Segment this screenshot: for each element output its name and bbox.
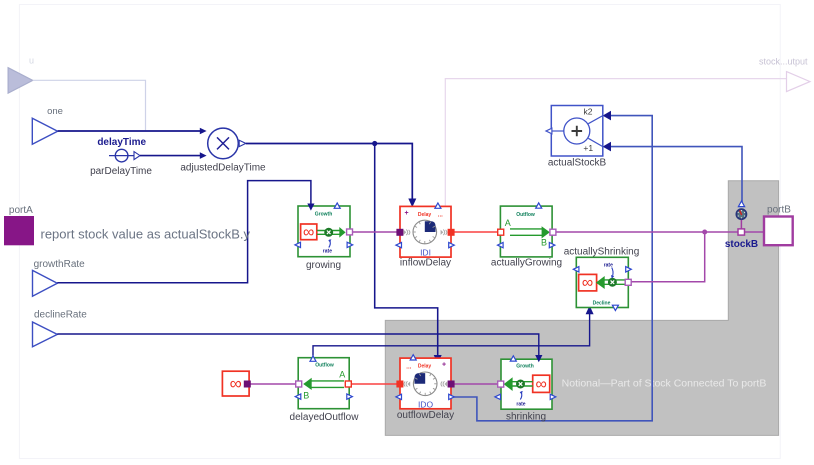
actuallyShrinking right port bbox=[625, 279, 631, 285]
wire: delayedOutflow to actuallyShrinking bbox=[313, 314, 590, 356]
stock stockB bbox=[725, 201, 758, 250]
actuallyShrinking bottom-right connector bbox=[612, 305, 618, 310]
svg-text:Delay: Delay bbox=[418, 363, 432, 369]
actuallyGrowing bottom-right connector bbox=[549, 242, 555, 247]
svg-text:Decline: Decline bbox=[593, 301, 611, 307]
shrinking input arrow bbox=[535, 355, 542, 362]
svg-text:shrinking: shrinking bbox=[506, 412, 546, 423]
svg-text:Notional—Part of Stock Connect: Notional—Part of Stock Connected To port… bbox=[562, 378, 767, 390]
growing cloud source bbox=[301, 224, 317, 240]
inflowDelay right port bbox=[448, 229, 454, 235]
port portB bbox=[764, 217, 793, 246]
svg-text:rate: rate bbox=[516, 402, 525, 408]
outflowDelay right port bbox=[448, 381, 454, 387]
stockB gauge icon bbox=[736, 209, 746, 219]
actuallyShrinking right-top connector bbox=[626, 267, 632, 272]
actualStockB output connector bbox=[546, 128, 552, 134]
growing rate pointer bbox=[329, 240, 330, 248]
delayedOutflow bottom-left connector bbox=[295, 394, 301, 399]
inflowDelay bottom-right connector bbox=[449, 242, 455, 247]
inflowDelay bottom-left connector bbox=[396, 242, 402, 247]
growing right info connector bbox=[347, 242, 353, 247]
delayedOutflow top connector bbox=[310, 356, 316, 361]
wire: adjustedDelayTime to inflowDelay bbox=[246, 144, 412, 200]
shrinking left port bbox=[498, 381, 504, 387]
shrinking top connector bbox=[510, 356, 516, 361]
svg-text:Outflow: Outflow bbox=[315, 363, 334, 369]
wire: inflowDelay to actuallyGrowing bbox=[454, 231, 498, 233]
delayedOutflow bottom-right connector bbox=[347, 394, 353, 399]
wire: growing to inflowDelay bbox=[352, 231, 397, 233]
svg-text:actuallyGrowing: actuallyGrowing bbox=[491, 257, 562, 268]
shrinking bottom-left connector bbox=[495, 394, 501, 399]
actuallyGrowing right port bbox=[550, 229, 556, 235]
actuallyShrinking rate multiplier bbox=[608, 278, 616, 286]
svg-text:∞: ∞ bbox=[230, 374, 242, 393]
svg-text:growing: growing bbox=[306, 260, 341, 271]
stockB flow square bbox=[738, 229, 745, 235]
wire: actuallyGrowing to stockB bbox=[556, 231, 738, 233]
wire: stockB square to portB bbox=[745, 231, 764, 233]
op adjustedDelayTime (multiplier) bbox=[208, 128, 246, 159]
svg-text:Delay: Delay bbox=[418, 212, 432, 218]
svg-text:IDO: IDO bbox=[418, 399, 434, 409]
outflowDelay bottom-right connector bbox=[449, 394, 455, 399]
shrinking cloud source bbox=[533, 375, 550, 392]
wire: growthRate to growing bbox=[57, 181, 311, 283]
outflowDelay clock bbox=[413, 372, 437, 396]
inflowDelay left port bbox=[397, 229, 403, 235]
shrinking rate multiplier bbox=[517, 380, 525, 388]
wire: outflowDelay to shrinking bbox=[454, 383, 498, 385]
svg-text:stockB: stockB bbox=[725, 239, 758, 250]
wire: declineRate to shrinking bbox=[57, 334, 539, 357]
port portA bbox=[4, 216, 34, 245]
svg-text:one: one bbox=[47, 106, 63, 117]
svg-text:adjustedDelayTime: adjustedDelayTime bbox=[180, 163, 266, 174]
svg-text:inflowDelay: inflowDelay bbox=[400, 258, 451, 269]
svg-text:report stock value as actualSt: report stock value as actualStockB.y bbox=[41, 227, 251, 242]
svg-text:...: ... bbox=[438, 213, 443, 219]
svg-text:u: u bbox=[29, 56, 34, 66]
svg-text:∞: ∞ bbox=[535, 376, 546, 393]
wire: u output (faded) bbox=[33, 80, 146, 130]
svg-text:...: ... bbox=[406, 364, 411, 370]
svg-text:∞: ∞ bbox=[582, 275, 593, 292]
svg-text:B: B bbox=[541, 237, 547, 247]
wire: adjustedDelayTime to outflowDelay bbox=[375, 144, 438, 356]
svg-text:IDI: IDI bbox=[420, 247, 431, 257]
delayedOutflow right port bbox=[345, 381, 351, 387]
cloud output square bbox=[244, 381, 250, 387]
growing top connector bbox=[334, 203, 340, 208]
outflowDelay bottom-left connector bbox=[396, 394, 402, 399]
delayedOutflow left port bbox=[296, 381, 302, 387]
wire: parDelayTime to adjustedDelayTime bbox=[140, 155, 200, 157]
shrinking flow arrow bbox=[512, 381, 533, 383]
node on stock wire bbox=[702, 230, 707, 235]
svg-text:Growth: Growth bbox=[315, 212, 333, 218]
svg-text:delayedOutflow: delayedOutflow bbox=[290, 412, 360, 423]
wire: outflowDelay to actualStockB k2 bbox=[454, 116, 653, 421]
block shrinking bbox=[495, 355, 556, 423]
wire: delayedOutflow to outflowDelay bbox=[351, 383, 397, 385]
input declineRate bbox=[33, 322, 58, 347]
svg-text:k2: k2 bbox=[584, 107, 593, 117]
actuallyShrinking left-top connector bbox=[573, 267, 579, 272]
svg-text:delayTime: delayTime bbox=[97, 137, 146, 148]
svg-text:actualStockB: actualStockB bbox=[548, 157, 607, 168]
growing input arrow bbox=[307, 204, 314, 211]
block delayedOutflow bbox=[290, 356, 360, 423]
outflowDelay left port bbox=[397, 381, 403, 387]
node at adjustedDelayTime branch bbox=[372, 141, 377, 146]
delayedOutflow flow arrow bbox=[311, 380, 344, 382]
growing flow arrow bbox=[317, 230, 340, 232]
block outflowDelay bbox=[396, 355, 454, 421]
block actuallyShrinking bbox=[564, 246, 640, 310]
svg-text:Outflow: Outflow bbox=[516, 212, 535, 218]
outflowDelay top-left connector bbox=[410, 355, 416, 360]
shrinking rate pointer bbox=[520, 391, 521, 399]
wire: node to actuallyShrinking bbox=[630, 232, 705, 282]
actuallyGrowing top connector bbox=[536, 203, 542, 208]
svg-text:growthRate: growthRate bbox=[34, 259, 86, 270]
block inflowDelay bbox=[396, 203, 454, 269]
svg-text:portB: portB bbox=[767, 205, 791, 216]
wire: stockB to actualStockB +1 bbox=[611, 147, 742, 203]
input one bbox=[32, 118, 57, 144]
svg-text:portA: portA bbox=[9, 205, 33, 216]
svg-text:rate: rate bbox=[323, 249, 332, 255]
growing left info connector bbox=[295, 242, 301, 247]
input u (faded) bbox=[8, 68, 33, 93]
wire: cloud to delayedOutflow bbox=[250, 383, 296, 385]
wire: one to adjustedDelayTime bbox=[58, 130, 200, 132]
actuallyGrowing flow arrow bbox=[510, 228, 542, 230]
stockB top connector bbox=[738, 201, 744, 207]
svg-text:A: A bbox=[339, 370, 345, 380]
svg-text:actuallyShrinking: actuallyShrinking bbox=[564, 246, 640, 257]
svg-text:stock...utput: stock...utput bbox=[759, 57, 808, 67]
svg-text:outflowDelay: outflowDelay bbox=[397, 410, 454, 421]
parameter parDelayTime bbox=[109, 149, 140, 162]
svg-text:Growth: Growth bbox=[516, 364, 534, 370]
inflowDelay top connector bbox=[435, 203, 441, 208]
svg-text:+: + bbox=[405, 210, 409, 217]
svg-text:B: B bbox=[303, 391, 309, 401]
notional gray region bbox=[385, 181, 778, 436]
wire: faded stock output bbox=[445, 79, 786, 206]
inflowDelay clock bbox=[413, 220, 437, 244]
svg-text:∞: ∞ bbox=[303, 224, 314, 241]
actuallyGrowing left port bbox=[498, 229, 504, 235]
actuallyShrinking cloud bbox=[579, 274, 597, 291]
svg-text:parDelayTime: parDelayTime bbox=[90, 166, 152, 177]
block actuallyGrowing bbox=[491, 203, 562, 268]
svg-text:declineRate: declineRate bbox=[34, 310, 87, 321]
growing output square bbox=[347, 229, 353, 235]
output stock...utput (faded triangle) bbox=[787, 72, 811, 92]
cloud sink for delayedOutflow bbox=[222, 371, 250, 396]
gain actualStockB bbox=[546, 106, 607, 169]
shrinking bottom-right connector bbox=[550, 394, 556, 399]
actuallyShrinking rate pointer bbox=[612, 268, 613, 276]
input growthRate bbox=[33, 270, 58, 296]
actuallyShrinking flow arrow bbox=[604, 279, 625, 281]
svg-text:A: A bbox=[505, 218, 511, 228]
block growing bbox=[295, 203, 353, 271]
growing rate multiplier bbox=[325, 228, 333, 236]
svg-text:+1: +1 bbox=[583, 143, 593, 153]
svg-text:+: + bbox=[442, 361, 446, 368]
actuallyGrowing bottom-left connector bbox=[498, 242, 504, 247]
